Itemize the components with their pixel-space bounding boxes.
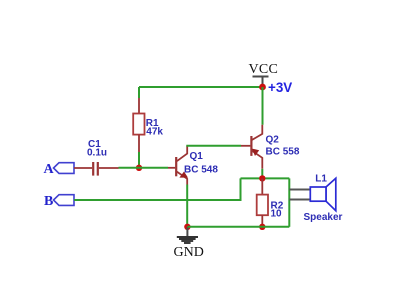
wire B to right <box>74 178 241 200</box>
svg-text:A: A <box>44 162 55 177</box>
speaker lead bottom <box>289 199 310 201</box>
ground <box>177 227 198 243</box>
wire Q1 collector to Q2 base <box>186 145 241 147</box>
svg-text:Q1: Q1 <box>190 151 204 162</box>
wire top rail VCC <box>139 86 263 88</box>
node Q2/R2/speaker junction <box>259 175 265 181</box>
node R1/C1/Q1 junction <box>136 165 142 171</box>
connector B <box>54 195 75 206</box>
svg-text:47k: 47k <box>146 127 163 138</box>
wire speaker right vertical <box>288 178 290 226</box>
capacitor C1 <box>93 162 118 176</box>
wire Q2 base stub <box>241 145 250 147</box>
svg-text:B: B <box>44 194 53 209</box>
svg-text:10: 10 <box>271 209 283 220</box>
svg-text:0.1u: 0.1u <box>87 148 107 159</box>
svg-text:Q2: Q2 <box>266 134 280 145</box>
resistor R1 <box>133 98 144 152</box>
Q2 emitter arrow <box>252 149 259 156</box>
wire Q1 emitter down to ground node <box>186 185 188 227</box>
node R2 bottom junction <box>259 224 265 230</box>
svg-text:BC 548: BC 548 <box>184 164 218 175</box>
Q1 emitter arrow <box>179 172 188 178</box>
resistor R2 <box>257 178 268 224</box>
svg-text:BC 558: BC 558 <box>266 147 300 158</box>
transistor Q2 <box>251 125 262 169</box>
svg-text:VCC: VCC <box>249 62 279 77</box>
wire R1 top <box>138 87 140 98</box>
power symbol VCC <box>253 77 269 86</box>
wire Q2 bottom green <box>261 169 263 179</box>
wire R1 bottom <box>138 152 140 168</box>
node ground junction <box>184 224 190 230</box>
connector A <box>54 163 75 174</box>
svg-text:Speaker: Speaker <box>304 212 343 223</box>
wire Q2 collector node rail <box>241 177 290 179</box>
node VCC junction <box>259 84 266 91</box>
wire C1 to junction to Q1 base <box>119 167 169 169</box>
svg-text:L1: L1 <box>315 174 327 185</box>
wire Q1 base stub <box>168 167 175 169</box>
transistor Q1 <box>176 146 187 185</box>
speaker lead top <box>289 189 310 191</box>
svg-text:GND: GND <box>174 245 204 260</box>
wire A to C1 <box>74 167 92 169</box>
svg-text:+3V: +3V <box>268 80 292 95</box>
wire bottom rail <box>187 226 289 228</box>
speaker L1 <box>310 178 336 210</box>
wire VCC to Q2 <box>262 87 264 125</box>
